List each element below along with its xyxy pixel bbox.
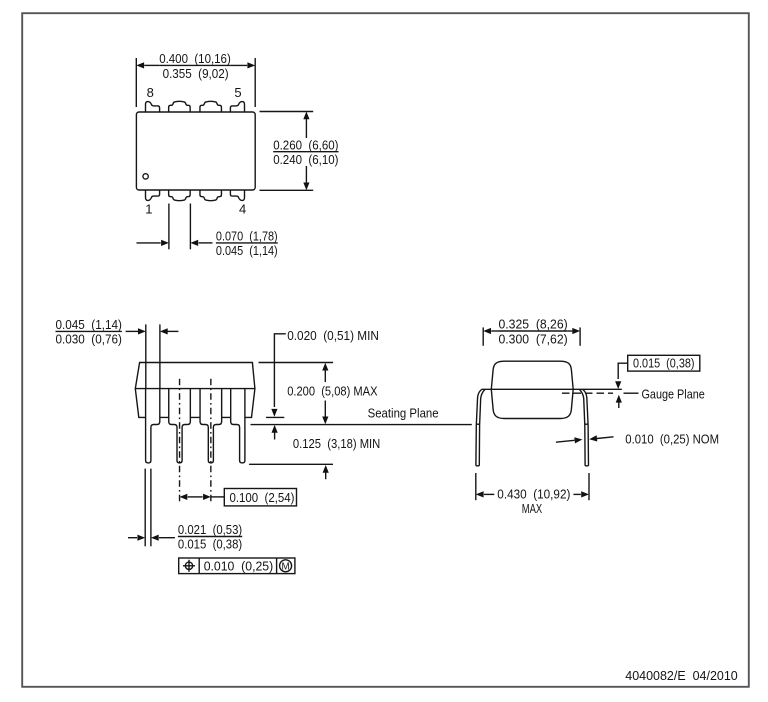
dim 0.020 up arrow below seating plane	[274, 432, 276, 440]
true position symbol	[185, 562, 192, 569]
svg-text:0.015 (0,38): 0.015 (0,38)	[178, 537, 242, 552]
svg-text:4: 4	[239, 201, 246, 216]
dim 0.260/0.240 extension lines	[260, 111, 314, 113]
fraction bar	[216, 242, 278, 244]
end view: package body	[491, 361, 573, 418]
svg-text:M: M	[282, 561, 290, 573]
side view: lead 4 (wide shoulder + narrow pin)	[231, 389, 245, 463]
dim 0.020 MIN leader	[274, 334, 285, 407]
top view: pin 1 index dot	[143, 174, 148, 179]
top view: pin 6	[200, 101, 222, 112]
gauge plane leader	[624, 392, 639, 394]
top view: pin 8 (top-left corner pin)	[146, 102, 160, 112]
dim 0.430 extension lines	[475, 473, 477, 500]
feature control frame box	[179, 558, 295, 574]
side view: lead 1 (wide shoulder + narrow pin)	[146, 389, 160, 463]
dim 0.015 leader and arrows	[618, 363, 628, 379]
gauge plane dashed line	[562, 392, 613, 394]
svg-text:0.010 (0,25) NOM: 0.010 (0,25) NOM	[625, 432, 719, 447]
svg-text:0.045 (1,14): 0.045 (1,14)	[56, 317, 122, 332]
top view: pin 5 (top-right corner pin)	[230, 102, 244, 112]
dim 0.200 MAX dimension line and arrows	[324, 370, 326, 383]
centerline lead 3	[210, 379, 212, 503]
svg-text:Gauge Plane: Gauge Plane	[642, 386, 705, 401]
top view: pin 3	[200, 190, 222, 201]
svg-text:8: 8	[147, 85, 154, 100]
M circle symbol (MMC)	[280, 560, 292, 572]
top view: package body	[136, 112, 255, 190]
body bottom extension tick	[266, 416, 284, 418]
end view: right leg	[583, 389, 589, 466]
dim 0.070/0.045 dimension line and arrows	[137, 242, 161, 244]
svg-text:0.300 (7,62): 0.300 (7,62)	[499, 332, 568, 347]
svg-text:0.021 (0,53): 0.021 (0,53)	[178, 522, 242, 537]
svg-text:0.355 (9,02): 0.355 (9,02)	[163, 66, 229, 81]
body top extension line	[259, 362, 334, 364]
top view: pin 7	[169, 101, 191, 112]
svg-text:0.020 (0,51) MIN: 0.020 (0,51) MIN	[287, 328, 379, 343]
dim 0.100 box	[224, 489, 296, 506]
fraction bar	[178, 536, 242, 538]
seating plane line	[251, 424, 472, 426]
dim 0.325/0.300 dimension line and arrows	[491, 330, 498, 332]
top view: pin 2	[169, 190, 191, 201]
dim 0.010 NOM arrows	[556, 440, 575, 442]
fraction bar	[56, 330, 122, 332]
dim 0.021/0.015 extension lines	[144, 469, 146, 547]
svg-text:0.070 (1,78): 0.070 (1,78)	[216, 229, 278, 244]
svg-text:0.240 (6,10): 0.240 (6,10)	[273, 152, 338, 167]
dim 0.045/0.030 dimension line and arrows	[126, 330, 138, 332]
TOPVIEW	[136, 51, 338, 258]
svg-text:MAX: MAX	[522, 501, 543, 516]
dim 0.260/0.240 dimension line and arrows	[305, 118, 307, 138]
dim 0.125 MIN up arrow	[325, 473, 327, 480]
fraction bar	[273, 151, 338, 153]
dim 0.070/0.045 extension lines	[168, 204, 170, 250]
svg-text:0.200 (5,08) MAX: 0.200 (5,08) MAX	[287, 384, 378, 399]
svg-text:0.430 (10,92): 0.430 (10,92)	[497, 487, 570, 502]
dim 0.325/0.300 extension lines	[482, 327, 484, 345]
dim 0.100 dimension line and arrows	[188, 496, 203, 498]
SIDEVIEW	[56, 317, 472, 573]
svg-text:0.325 (8,26): 0.325 (8,26)	[499, 317, 568, 332]
dim 0.045/0.030 extension lines	[145, 324, 147, 388]
dim 0.015 box	[628, 355, 700, 371]
svg-text:0.125 (3,18) MIN: 0.125 (3,18) MIN	[293, 436, 380, 451]
top view: pin 1 (bottom-left corner pin)	[146, 190, 160, 200]
svg-text:0.400 (10,16): 0.400 (10,16)	[159, 51, 231, 66]
end view: left leg	[476, 389, 482, 466]
end view: lead attach line	[482, 388, 622, 390]
side view: package body outline	[135, 363, 255, 418]
side view: body parting line	[135, 388, 255, 390]
svg-text:4040082/E 04/2010: 4040082/E 04/2010	[625, 668, 737, 683]
svg-text:5: 5	[234, 85, 241, 100]
svg-text:0.015 (0,38): 0.015 (0,38)	[633, 355, 695, 370]
svg-text:0.100 (2,54): 0.100 (2,54)	[230, 490, 295, 505]
pin tip extension line	[249, 463, 333, 465]
top view: pin 4 (bottom-right corner pin)	[230, 190, 244, 200]
dim 0.400/0.355 dimension line and arrows	[144, 64, 159, 66]
dim 0.430 dimension line and arrows	[484, 493, 494, 495]
side view: lead 2	[169, 389, 191, 463]
svg-text:Seating Plane: Seating Plane	[368, 406, 439, 421]
dim 0.400/0.355 extension line left	[135, 58, 137, 107]
svg-text:0.010 (0,25): 0.010 (0,25)	[204, 559, 274, 574]
centerline lead 2	[179, 379, 181, 503]
svg-text:0.045 (1,14): 0.045 (1,14)	[216, 243, 278, 258]
dim 0.021/0.015 dimension line and arrows	[128, 537, 137, 539]
dim 0.400/0.355 extension line right	[254, 58, 256, 107]
svg-text:0.030 (0,76): 0.030 (0,76)	[56, 332, 122, 347]
side view: lead 3	[200, 389, 222, 463]
svg-text:1: 1	[145, 201, 152, 216]
ENDVIEW	[476, 317, 719, 516]
svg-text:0.260 (6,60): 0.260 (6,60)	[273, 138, 338, 153]
fraction bar	[499, 330, 568, 332]
